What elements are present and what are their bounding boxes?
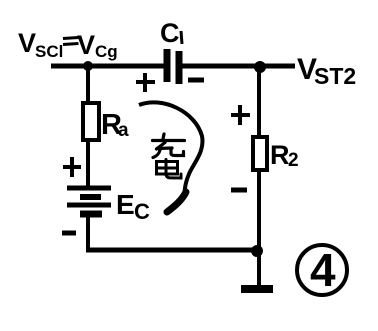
resistor Ra [83,103,99,140]
label R2 [270,140,299,171]
svg-text:C: C [134,199,150,224]
svg-text:SCl: SCl [35,42,63,61]
resistor R2 [253,137,267,170]
wire resistor to battery [86,140,90,187]
ground [241,285,273,293]
capacitor C1 plates [167,49,179,84]
svg-text:E: E [116,189,135,220]
svg-text:a: a [118,120,129,141]
svg-text:Cg: Cg [95,42,118,61]
svg-text:2: 2 [288,150,299,171]
node junction top-left [83,61,93,71]
plus sign battery [63,157,81,177]
wire right branch upper [257,66,261,139]
minus sign R2 [231,188,247,193]
wire battery to bottom rail [86,214,90,252]
minus sign right of C1 [188,78,204,83]
svg-text:R: R [270,140,290,170]
wire top rail left segment [51,64,168,69]
svg-text:4: 4 [310,244,336,296]
svg-text:V: V [77,30,95,60]
plus sign left of C1 [136,73,155,92]
hanzi chong (charge) [153,134,185,158]
label VSCl=VCg [18,28,118,61]
plus sign R2 [231,105,250,125]
svg-text:ST2: ST2 [314,63,356,89]
label Ec [116,189,150,224]
charging arrowhead [167,192,186,212]
svg-text:V: V [18,28,36,58]
node junction bottom-right [251,245,263,257]
charging arrow curve [139,102,202,196]
wire right branch lower [257,170,261,288]
wire left branch upper [86,66,90,105]
minus sign battery [62,231,76,236]
wire bottom rail [86,248,258,253]
capacitor C1 label [160,18,182,48]
node junction top-right [254,61,266,73]
svg-text:C: C [160,18,180,48]
circled number 4 [297,244,347,296]
label VST2 [297,53,356,89]
wire top rail right segment [180,64,295,69]
label Ra [101,109,129,141]
battery Ec plates [67,188,111,214]
hanzi dian (electricity) [157,160,182,179]
